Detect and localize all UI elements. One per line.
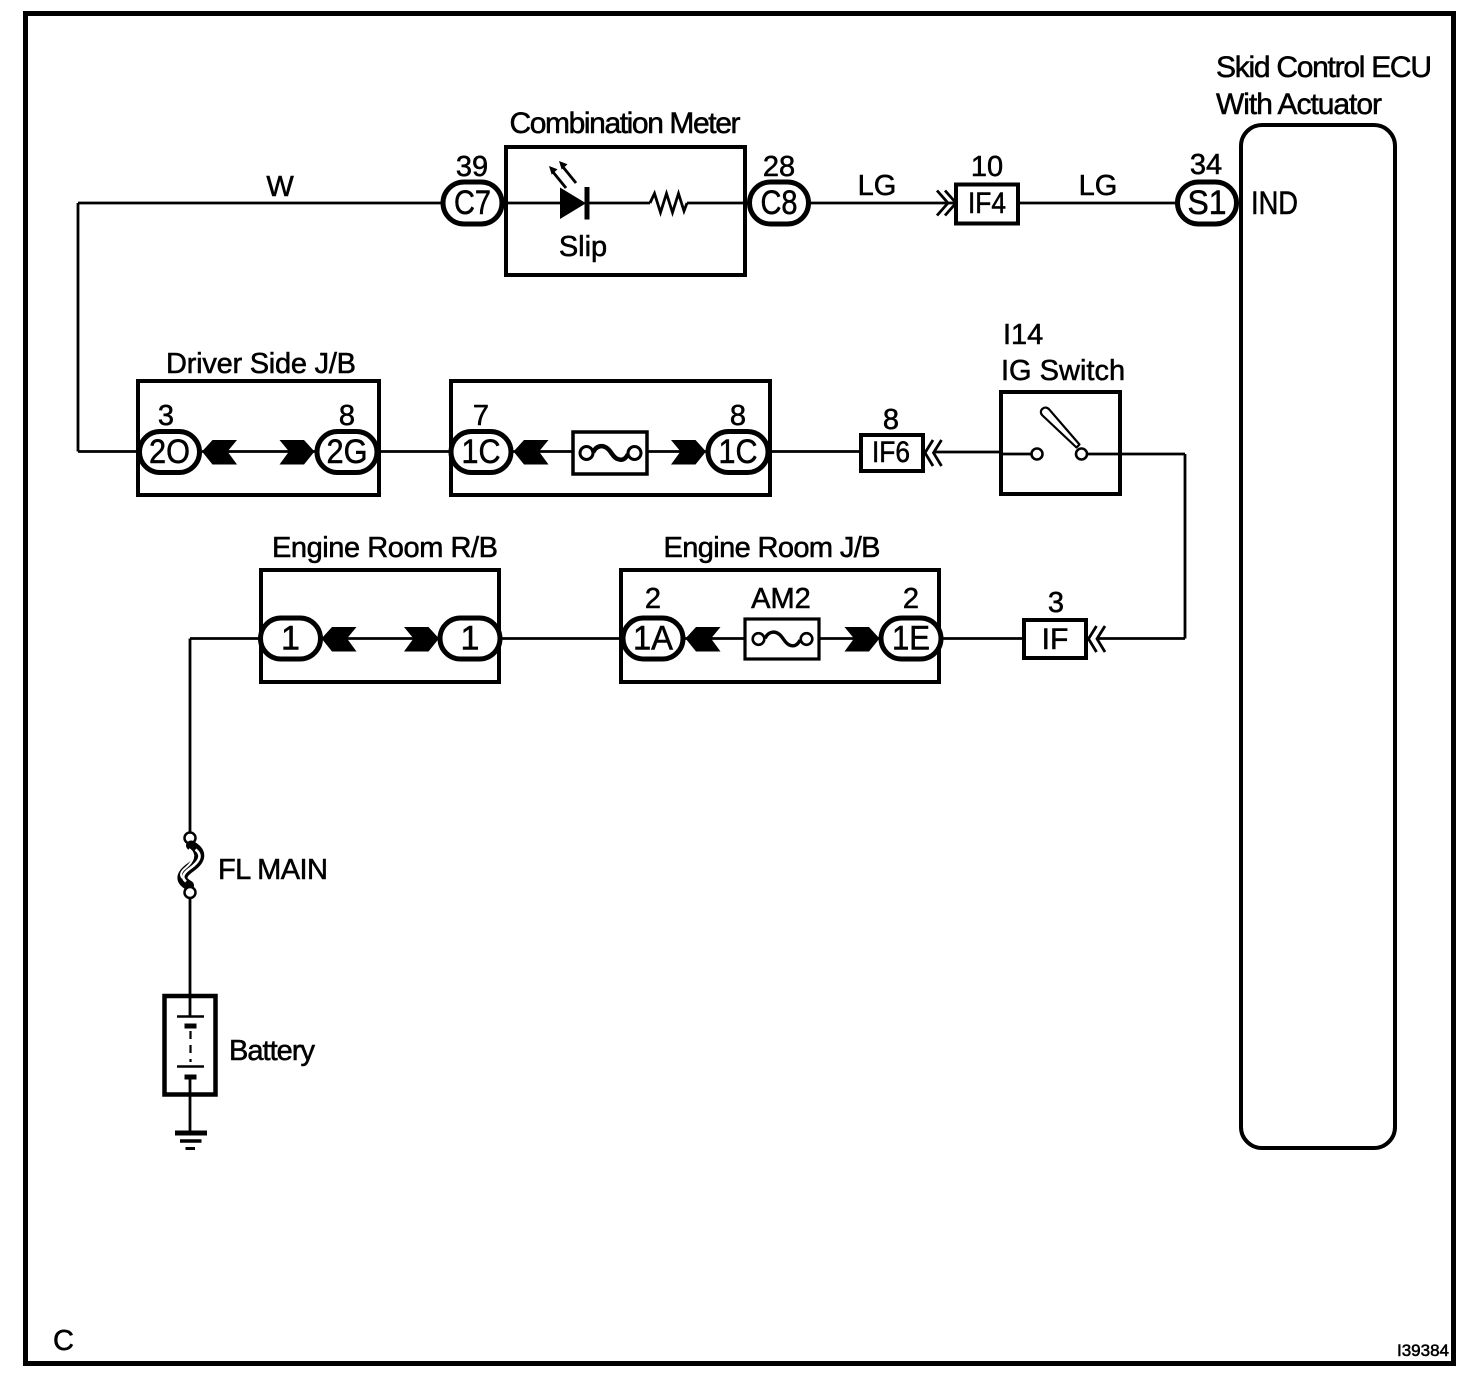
svg-text:2O: 2O	[149, 433, 190, 471]
wire LED to resistor	[589, 202, 650, 205]
connector IF	[1024, 620, 1086, 658]
switch contact right	[1076, 449, 1087, 460]
fusible link FL MAIN: top terminal	[185, 833, 196, 844]
battery box	[165, 996, 216, 1095]
splice arrow left	[686, 627, 721, 652]
svg-text:With Actuator: With Actuator	[1216, 88, 1382, 121]
wire battery to ground	[189, 1077, 192, 1131]
wire C8 to IF4	[810, 202, 954, 205]
connector 2G	[317, 432, 377, 473]
svg-text:2: 2	[903, 583, 919, 615]
resistor	[650, 194, 687, 213]
ground bar 2	[180, 1139, 202, 1143]
fusible link bottom terminal	[185, 887, 196, 898]
svg-text:IF6: IF6	[872, 436, 910, 469]
svg-text:10: 10	[971, 151, 1003, 183]
svg-text:7: 7	[473, 400, 489, 432]
Skid Control ECU box	[1241, 125, 1395, 1148]
svg-text:Engine Room J/B: Engine Room J/B	[664, 532, 881, 564]
connector 1 right	[440, 618, 500, 659]
svg-text:3: 3	[158, 400, 174, 432]
switch lever	[1041, 408, 1080, 448]
svg-text:8: 8	[730, 400, 746, 432]
connector 1A	[623, 618, 683, 659]
battery plate long top	[177, 1015, 204, 1018]
svg-text:Slip: Slip	[559, 231, 607, 263]
wire 2G to 1C	[379, 450, 452, 453]
svg-text:8: 8	[883, 404, 899, 436]
svg-text:IND: IND	[1251, 185, 1298, 221]
splice arrow left	[514, 440, 549, 465]
fuse terminal left	[753, 633, 765, 645]
svg-text:I14: I14	[1003, 319, 1043, 351]
fuse element wave	[765, 632, 800, 646]
svg-text:AM2: AM2	[751, 583, 811, 615]
battery dashed center line	[189, 1031, 191, 1062]
wire inside driver J/B	[202, 450, 315, 453]
Engine Room J/B box	[621, 570, 939, 682]
wire 1E to IF	[943, 637, 1022, 640]
LED light arrow 1	[553, 172, 566, 188]
svg-text:Driver Side J/B: Driver Side J/B	[166, 348, 356, 380]
battery plate short thick top	[185, 1024, 197, 1029]
svg-text:C8: C8	[761, 184, 798, 222]
svg-text:IF4: IF4	[968, 187, 1006, 220]
IG switch I14 box	[1001, 392, 1120, 494]
splice arrow left	[322, 627, 357, 652]
wire resistor to C8	[687, 202, 748, 205]
svg-text:2G: 2G	[327, 433, 368, 471]
connector 1C left	[451, 432, 511, 473]
LED cathode bar	[585, 187, 590, 220]
wire inside	[513, 450, 707, 453]
wire 1C to IF6	[770, 450, 859, 453]
splice arrow right	[845, 627, 880, 652]
svg-text:LG: LG	[858, 170, 897, 202]
chevron splice into IF4	[937, 191, 956, 216]
wire FL to battery	[189, 899, 192, 1017]
wire IF6 to IG switch	[934, 451, 1001, 454]
fuse terminal right	[628, 447, 641, 460]
wire IF4 to S1	[1020, 202, 1178, 205]
connector IF4	[956, 185, 1018, 224]
Engine Room R/B box	[261, 570, 499, 682]
splice arrow left	[202, 440, 237, 465]
svg-text:2: 2	[645, 583, 661, 615]
wire R/B to J/B	[501, 637, 622, 640]
svg-text:LG: LG	[1079, 170, 1118, 202]
wire IG switch to IF (right drop)	[1097, 454, 1185, 639]
wire inside R/B	[321, 637, 440, 640]
svg-text:3: 3	[1048, 587, 1064, 619]
svg-text:IG Switch: IG Switch	[1001, 355, 1125, 387]
svg-text:8: 8	[339, 400, 355, 432]
svg-text:I39384: I39384	[1397, 1341, 1449, 1360]
connector IF6	[861, 435, 923, 471]
svg-text:IF: IF	[1042, 623, 1069, 656]
splice arrow right	[671, 440, 706, 465]
Driver Side J/B box	[138, 381, 379, 495]
fuse element wave	[593, 446, 628, 460]
junction block box (1C fuse)	[451, 381, 770, 495]
connector C7	[443, 182, 502, 224]
svg-text:Engine Room R/B: Engine Room R/B	[272, 532, 498, 564]
svg-text:FL MAIN: FL MAIN	[218, 854, 328, 886]
svg-text:34: 34	[1190, 149, 1222, 181]
switch contact left	[1032, 449, 1043, 460]
svg-text:1: 1	[461, 620, 480, 658]
fusible link body	[182, 846, 199, 886]
svg-text:C7: C7	[454, 184, 491, 222]
svg-text:Combination Meter: Combination Meter	[510, 107, 741, 140]
combination meter box	[506, 147, 745, 275]
splice arrow right	[404, 627, 439, 652]
chevron splice out of IF6	[925, 440, 942, 466]
svg-text:1: 1	[281, 620, 300, 658]
wire battery column	[189, 639, 192, 832]
svg-text:C: C	[53, 1325, 74, 1357]
wire inside IG box	[1001, 453, 1118, 456]
wire inside J/B	[685, 637, 880, 640]
svg-text:S1: S1	[1188, 184, 1227, 222]
svg-text:W: W	[266, 171, 294, 203]
fuse terminal left	[580, 447, 593, 460]
ground bar 1	[175, 1131, 207, 1136]
connector 2O	[140, 432, 200, 473]
svg-text:1C: 1C	[719, 433, 758, 471]
battery plate short thick bottom	[185, 1075, 197, 1080]
fuse terminal right	[801, 633, 813, 645]
connector 1E	[881, 618, 941, 659]
connector C8	[750, 182, 809, 224]
connector 1C right	[708, 432, 768, 473]
fuse GAUGE box	[573, 432, 647, 474]
svg-text:1E: 1E	[892, 620, 930, 658]
svg-text:1C: 1C	[462, 433, 501, 471]
battery plate long bottom	[177, 1065, 204, 1068]
LED light arrow 2	[563, 167, 576, 183]
connector S1	[1178, 182, 1237, 224]
svg-text:Skid Control ECU: Skid Control ECU	[1216, 51, 1432, 84]
svg-text:39: 39	[456, 151, 488, 183]
splice arrow right	[280, 440, 315, 465]
fuse AM2 box	[745, 619, 819, 659]
ground bar 3	[186, 1147, 196, 1150]
svg-text:1A: 1A	[633, 620, 673, 658]
LED D1 Slip: triangle	[560, 188, 586, 220]
chevron splice out of IF	[1089, 626, 1106, 652]
wire W net: horizontal row1 and left vertical drop	[78, 203, 442, 452]
wire C7 to LED	[503, 202, 560, 205]
connector 1 left	[261, 618, 321, 659]
svg-text:28: 28	[763, 151, 795, 183]
wire into R/B from left	[190, 637, 262, 640]
svg-text:Battery: Battery	[229, 1035, 316, 1067]
